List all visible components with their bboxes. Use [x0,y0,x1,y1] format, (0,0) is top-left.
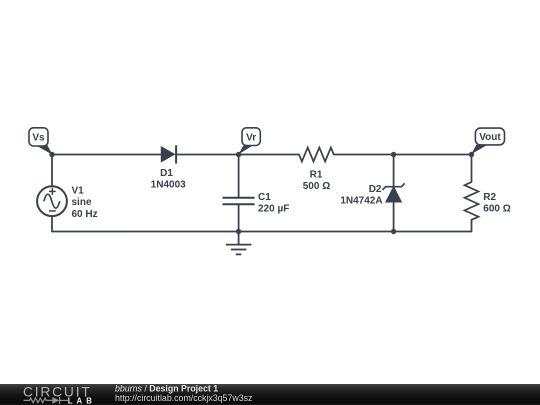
svg-text:R2: R2 [483,192,496,203]
svg-text:C1: C1 [258,192,271,203]
wire Vs node down to V1 top [51,155,53,187]
label R2 value [483,192,510,215]
diode D1 [161,145,176,163]
svg-text:60 Hz: 60 Hz [72,209,98,220]
wire R1 to Vout node [334,154,472,156]
footer bar [0,384,540,405]
svg-text:Vout: Vout [479,132,501,143]
resistor R2 [465,182,479,220]
node flag Vr [239,128,261,155]
node Vout junction [469,152,474,157]
wire R2 bottom to bottom rail [471,220,473,232]
wire Vout node down to R2 top [471,155,473,183]
node D2 anode junction [391,229,396,234]
node flag Vs [29,128,52,155]
wire Vr node down to C1 top plate [238,155,240,198]
logo resistor-diode squiggle [24,397,68,404]
label D1 value [151,168,186,190]
capacitor C1 [223,198,255,205]
svg-text:1N4742A: 1N4742A [340,196,382,207]
resistor R1 [299,148,334,162]
svg-text:600 Ω: 600 Ω [483,204,510,215]
voltage source V1 [37,186,67,216]
node Vs junction [49,152,54,157]
logo diode triangle [52,397,59,404]
wire D1 cathode to R1 [176,154,299,156]
wire node to D2 cathode [393,155,395,187]
wire top rail Vs to D1 anode [52,154,161,156]
svg-text:Vs: Vs [32,133,45,144]
label C1 value [258,192,289,215]
svg-text:1N4003: 1N4003 [151,179,186,190]
svg-text:bburns / Design Project 1: bburns / Design Project 1 [115,383,218,393]
svg-text:R1: R1 [310,170,323,181]
wire V1 bottom to bottom rail [51,216,53,231]
svg-text:D1: D1 [160,168,173,179]
wire ground stub [238,232,240,245]
label R1 value [303,170,330,193]
svg-text:Vr: Vr [246,132,256,143]
svg-text:D2: D2 [369,184,382,195]
wire D2 anode to bottom rail [393,202,395,232]
svg-text:sine: sine [72,197,92,208]
wire bottom rail [52,231,472,233]
node flag Vout [471,128,504,154]
label V1 value [72,186,98,220]
svg-text:LAB: LAB [68,396,96,405]
ground [226,245,252,255]
node D2 cathode junction [391,152,396,157]
wire C1 bottom plate to bottom rail [238,204,240,231]
svg-text:http://circuitlab.com/cckjx3q5: http://circuitlab.com/cckjx3q57w3sz [115,393,252,403]
svg-text:220 µF: 220 µF [258,204,289,215]
zener diode D2 [383,183,405,202]
label D2 value [340,184,382,207]
node ground junction [236,229,241,234]
svg-text:500 Ω: 500 Ω [303,181,330,192]
svg-text:V1: V1 [72,186,85,197]
node Vr junction [236,152,241,157]
